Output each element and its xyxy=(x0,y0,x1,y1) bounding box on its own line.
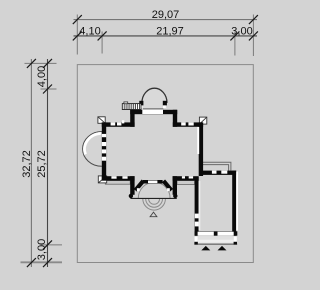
svg-text:32,72: 32,72 xyxy=(21,150,33,178)
bay floor line xyxy=(143,108,163,109)
window: small notch near protrusion xyxy=(122,120,124,123)
extension line left y=244.9 xyxy=(41,244,63,246)
gate post gap left xyxy=(195,237,198,242)
wall: porch chamfer left xyxy=(135,181,143,190)
windows: bottom wall left xyxy=(111,176,116,179)
window band: right wall inner xyxy=(197,127,199,154)
wall: wing right xyxy=(232,171,236,236)
left bay white window band xyxy=(84,133,101,154)
window: top wall left 2 xyxy=(117,122,121,125)
left bay semicircle xyxy=(83,132,102,167)
windows: wing left wall xyxy=(195,214,199,219)
svg-text:25,72: 25,72 xyxy=(36,150,48,178)
svg-text:4,10: 4,10 xyxy=(79,25,100,37)
white gap on chamfer right xyxy=(167,188,170,191)
driveway triangle right xyxy=(218,246,227,251)
terrace strip bottom-right xyxy=(177,181,195,185)
tick row2 x=77 xyxy=(73,31,82,40)
white slot under right post xyxy=(163,105,166,108)
wall: main top right segment xyxy=(173,122,203,126)
dimension line 4,00/25,72/3,00 xyxy=(47,59,49,267)
wall: porch right vertical xyxy=(173,176,177,195)
wall: porch chamfer right xyxy=(164,181,172,190)
svg-text:4,00: 4,00 xyxy=(36,66,48,87)
wall: main left xyxy=(102,122,106,180)
window: top wall left 1 xyxy=(111,122,116,125)
tick row2 x=235 xyxy=(230,31,239,40)
white gap on chamfer left xyxy=(137,188,140,191)
entrance steps arcs xyxy=(143,199,166,210)
door opening white xyxy=(148,181,157,184)
gate post foot right xyxy=(234,242,237,245)
svg-text:21,97: 21,97 xyxy=(156,25,184,37)
entrance floor line xyxy=(130,197,176,199)
window: top wall right 2 xyxy=(188,122,193,125)
tick col2 y=63.4 xyxy=(43,59,52,68)
chimney ornament top-right xyxy=(199,117,206,124)
white strip inside wing left wall xyxy=(199,181,201,230)
tick row2 x=253 xyxy=(249,31,258,40)
extension line top x=235 xyxy=(234,32,236,56)
entrance marker triangle xyxy=(150,212,157,217)
wall: main bottom right segment xyxy=(173,176,199,180)
dimension line 32,72 xyxy=(30,59,32,267)
wing apron band xyxy=(198,240,234,243)
windows: wing top wall xyxy=(212,171,217,174)
wall: porch left vertical xyxy=(130,176,134,195)
wall: main right xyxy=(199,122,203,176)
windows: bottom wall right xyxy=(182,176,185,178)
wall: wing top xyxy=(199,171,236,175)
wing apron bottom line xyxy=(194,243,237,245)
wall: protrusion right xyxy=(173,110,177,127)
tick 29,07 right xyxy=(249,15,258,24)
wall: main bottom left segment xyxy=(102,176,135,180)
entrance canopy arc xyxy=(138,182,170,198)
wall: wing bottom xyxy=(195,231,238,235)
window: under bay xyxy=(142,110,163,114)
tick 32,72 top xyxy=(27,59,36,68)
plot boundary xyxy=(77,65,253,263)
porch corner dot right xyxy=(173,194,177,198)
extension line left y=63.4 xyxy=(25,62,57,64)
porch corner dot left xyxy=(129,194,133,198)
extension line top-right vertical xyxy=(252,15,254,57)
dimension line 4,10/21,97/3,00 xyxy=(74,35,258,37)
tick row2 x=102 xyxy=(98,31,107,40)
gate post gap right xyxy=(234,237,237,242)
tick 32,72 bottom xyxy=(27,258,36,267)
bay post left xyxy=(139,101,143,106)
terrace by right wing (double outline) xyxy=(203,162,231,172)
dimension line 29,07 xyxy=(74,19,258,21)
wing apron area xyxy=(195,236,236,244)
tick col2 y=244.9 xyxy=(43,240,52,249)
top bay arc xyxy=(142,88,167,103)
windows: wing bottom wall (garage doors) xyxy=(198,232,214,236)
tick 29,07 left xyxy=(73,15,82,24)
driveway triangle left xyxy=(201,246,210,251)
bay post right xyxy=(163,101,167,106)
wall: wing left xyxy=(195,177,199,236)
terrace strip bottom-left xyxy=(105,181,130,185)
extension line left bottom y=262.6 xyxy=(21,261,63,263)
chimney ornament bottom-left xyxy=(98,176,106,183)
wall: main top left segment xyxy=(102,122,135,126)
extension line top x=102 xyxy=(101,32,103,54)
wall: protrusion top band xyxy=(130,110,177,114)
gate post foot left xyxy=(194,242,197,245)
svg-text:29,07: 29,07 xyxy=(152,9,180,21)
extension line top-left vertical xyxy=(76,15,78,55)
window: top wall right 1 xyxy=(181,122,186,125)
top bay interior xyxy=(142,88,167,109)
tick col2 y=89 xyxy=(43,85,52,94)
wall: door jamb band xyxy=(143,180,163,184)
extension line left y=89 xyxy=(41,88,57,90)
wall: protrusion left xyxy=(130,110,134,127)
chimney ornament top-left xyxy=(98,117,105,124)
white slot under left post xyxy=(140,105,143,108)
svg-text:3,00: 3,00 xyxy=(231,25,252,37)
white strip outside wing right wall xyxy=(236,172,238,231)
windows: left wall xyxy=(102,134,106,137)
tick col2 y=262.6 xyxy=(43,258,52,267)
svg-text:3,00: 3,00 xyxy=(36,239,48,260)
stair xyxy=(122,102,141,110)
